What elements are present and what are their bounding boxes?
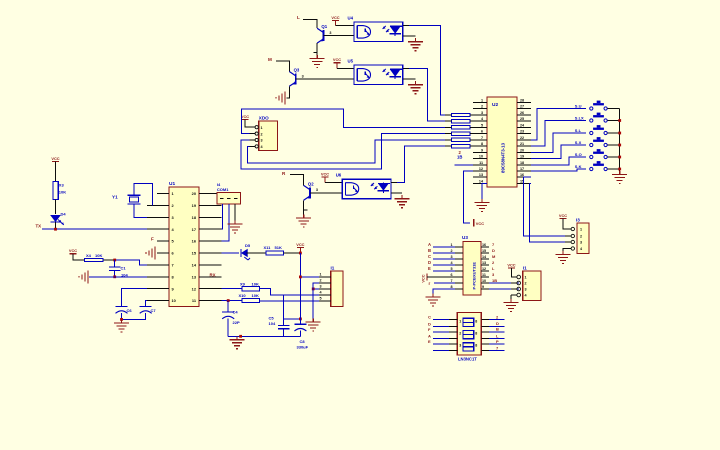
wire C1 top — [114, 260, 116, 267]
resistor X11 — [266, 251, 284, 255]
junction X11 VCC — [299, 252, 302, 255]
resistor R3 — [452, 113, 471, 116]
pin 12 U1 right — [199, 288, 222, 290]
pin 13 U2 left — [473, 176, 487, 178]
wire J3 pin1 to VCC rail — [300, 276, 319, 278]
svg-text:XDO: XDO — [259, 116, 269, 121]
svg-text:10K: 10K — [252, 281, 259, 286]
wire net TX to U1 pin4 — [42, 228, 147, 230]
svg-text:13: 13 — [479, 173, 483, 177]
svg-text:L: L — [297, 15, 300, 20]
pin 3 J1 — [511, 288, 517, 290]
svg-text:10: 10 — [172, 298, 176, 303]
wire X10 to J3 pin5 — [260, 300, 319, 302]
svg-text:11: 11 — [482, 273, 486, 277]
pin 4 J3 — [319, 294, 331, 296]
pin 11 U2 left — [473, 164, 487, 166]
svg-text:12: 12 — [479, 167, 483, 171]
svg-text:U5: U5 — [348, 59, 354, 64]
svg-text:6: 6 — [450, 273, 452, 277]
pin 15 U1 right — [199, 252, 222, 254]
resistor X10 — [242, 299, 260, 303]
svg-text:5: 5 — [320, 297, 322, 301]
svg-text:VCC: VCC — [69, 248, 77, 253]
svg-text:22: 22 — [520, 136, 524, 140]
ground U4 — [415, 38, 417, 42]
svg-text:P: P — [496, 339, 499, 344]
pin 3 U1 left — [147, 216, 169, 218]
svg-text:5: 5 — [450, 267, 452, 271]
resistor R5 — [452, 126, 471, 129]
wire VCC to U4 pin1 — [336, 24, 355, 26]
svg-text:X10: X10 — [239, 293, 247, 298]
svg-text:M: M — [268, 57, 272, 62]
svg-text:Y1: Y1 — [112, 195, 118, 200]
wire U2 pin 21 to button S.LX — [531, 121, 586, 147]
wire D5 to X11 — [246, 252, 265, 254]
wire U6 pin3 to ground — [391, 192, 402, 194]
pin 3 J3 — [319, 288, 331, 290]
pin 1 J3 — [319, 276, 331, 278]
wire XDO pin4 to U2 R7 — [247, 140, 445, 163]
wire button ground bus — [619, 109, 621, 174]
svg-text:VCC: VCC — [331, 15, 339, 20]
pin 2 J1 — [511, 282, 517, 284]
svg-text:1: 1 — [450, 243, 452, 247]
svg-text:16: 16 — [520, 173, 524, 177]
pin 9 U2 left — [473, 151, 487, 153]
svg-text:LN3NC1T: LN3NC1T — [458, 357, 477, 362]
wire Q1 emitter to ground — [316, 43, 318, 55]
svg-text:A: A — [428, 242, 431, 247]
pin 28 U2 right — [517, 102, 531, 104]
svg-text:330uF: 330uF — [297, 345, 309, 350]
wire COM1 to ground — [234, 204, 236, 221]
svg-text:I3: I3 — [576, 218, 580, 223]
pin 3 U3 left — [455, 258, 463, 260]
pin 17 U1 right — [199, 228, 222, 230]
capacitor C8 330uF — [294, 323, 306, 325]
svg-text:26: 26 — [520, 111, 524, 115]
pin 10 U3 right — [481, 282, 489, 284]
ground bottom cluster — [236, 336, 238, 340]
svg-text:15: 15 — [482, 249, 486, 253]
pin mark Q2 emitter — [304, 209, 308, 211]
wire U3 pin9 to J1 pin3 — [489, 288, 519, 290]
svg-text:C5: C5 — [269, 316, 275, 321]
svg-text:3: 3 — [302, 74, 304, 78]
wire DS1 net E — [433, 343, 449, 345]
pin 11 U1 right — [199, 300, 222, 302]
wire VCC rail down to C8 — [299, 253, 301, 324]
pin 15 U3 right — [481, 252, 489, 254]
wire Q3 base to U5 — [296, 78, 354, 80]
pin 10 U2 left — [473, 158, 487, 160]
wire VCC to XDO pin1 — [245, 120, 250, 128]
power VCC U3 pin6 — [426, 274, 428, 281]
resistor X4 — [85, 258, 104, 261]
pin 19 U2 right — [517, 158, 531, 160]
svg-text:104: 104 — [269, 321, 276, 326]
pin 16 U3 right — [481, 246, 489, 248]
wire R to Q2 collector — [290, 175, 304, 186]
svg-text:E: E — [428, 339, 431, 344]
junction X10 — [227, 299, 230, 302]
pin 6 U3 left — [455, 276, 463, 278]
wire DS1 right P — [489, 343, 505, 345]
svg-text:Q2: Q2 — [308, 181, 314, 186]
svg-text:C4: C4 — [233, 310, 239, 315]
pin 2 XDO — [250, 133, 256, 135]
svg-text:X9: X9 — [240, 281, 246, 286]
wire VCC to X3 — [55, 162, 57, 182]
wire button S.LX to bus — [608, 120, 620, 122]
ground U5 — [415, 81, 417, 85]
wire COM1 to U1 pin16 — [222, 204, 229, 241]
svg-text:1: 1 — [525, 276, 527, 280]
junction J3 pin1 — [299, 276, 302, 279]
svg-text:9: 9 — [482, 285, 484, 289]
wire button S.L to bus — [608, 132, 620, 134]
wire C5 to ground bus — [283, 329, 285, 337]
svg-text:1B: 1B — [457, 155, 462, 160]
wire U2 pin12 to VCC — [463, 171, 473, 223]
optocoupler U4 — [354, 22, 403, 41]
svg-text:2: 2 — [525, 282, 527, 286]
svg-text:D: D — [492, 248, 495, 253]
pin 7 U3 left — [455, 282, 463, 284]
junction C1 top — [113, 259, 116, 262]
pin 12 U2 left — [473, 170, 487, 172]
resistor R7 — [452, 138, 471, 141]
svg-text:28: 28 — [520, 99, 524, 103]
svg-text:8: 8 — [450, 285, 452, 289]
svg-text:U1: U1 — [169, 181, 175, 187]
wire C5 to C8 rail — [284, 318, 301, 320]
svg-text:8: 8 — [481, 142, 483, 146]
wire DS1 right 2 — [489, 319, 505, 321]
pin right 2 DS1 — [481, 325, 489, 327]
junction button S.O — [618, 156, 621, 159]
wire X9 to J3 pin4 — [260, 289, 319, 295]
svg-text:VCC: VCC — [51, 156, 59, 161]
svg-text:F: F — [151, 236, 154, 241]
wire DS1 net A — [433, 338, 449, 340]
svg-text:X4: X4 — [86, 253, 92, 258]
junction ground bus — [239, 335, 242, 338]
svg-text:12: 12 — [482, 267, 486, 271]
wire U3 pin1 to net A — [433, 246, 455, 248]
connector J2 — [577, 223, 589, 254]
svg-text:3: 3 — [481, 111, 483, 115]
wire DS1 net F — [433, 331, 449, 333]
wire D4 to net TX — [55, 222, 57, 229]
ground Q1 — [316, 55, 318, 59]
svg-text:COM1: COM1 — [217, 187, 229, 192]
wire U2 pin16 to J2 pin2 — [524, 177, 571, 236]
junction C6 ground — [120, 318, 123, 321]
pin 5 J3 — [319, 300, 331, 302]
svg-text:10: 10 — [482, 279, 486, 283]
wire button S.K to bus — [608, 168, 620, 170]
svg-text:2: 2 — [580, 235, 582, 239]
pin 18 U1 right — [199, 216, 222, 218]
pin 4 U3 left — [455, 264, 463, 266]
pin left 5 DS1 — [449, 343, 457, 345]
pin 14 U1 right — [199, 264, 222, 266]
svg-text:1: 1 — [580, 228, 582, 232]
ground U2 pin14 — [481, 199, 483, 203]
resistor R6 — [452, 132, 471, 135]
wire C5 top — [283, 295, 285, 325]
resistor R8 — [452, 144, 471, 147]
wire XDO pin2 to U2 R5 — [242, 109, 445, 134]
pin 26 U2 right — [517, 114, 531, 116]
wire ground to U1 pin8 — [89, 276, 147, 278]
wire X10 junction to C4 — [227, 301, 229, 312]
resistor R4 — [452, 119, 471, 122]
resistor X3 — [53, 182, 58, 200]
wire DS1 right L — [489, 338, 505, 340]
svg-text:3: 3 — [580, 241, 582, 245]
ground Q2 — [303, 215, 305, 219]
wire U2 pin15 to J2 pin3 — [530, 183, 571, 242]
junction J3 pin3 — [312, 288, 315, 291]
wire L to Q1 collector — [303, 19, 317, 28]
wire DS1 right B — [489, 331, 505, 333]
svg-text:51K: 51K — [275, 245, 282, 250]
pin 1 U1 left — [157, 193, 169, 195]
pin 9 U3 right — [481, 288, 489, 290]
pin 9 U1 left — [147, 288, 169, 290]
svg-text:VCC: VCC — [333, 57, 341, 62]
pin 2 U1 left — [147, 204, 169, 206]
pin 5 U3 left — [455, 270, 463, 272]
power VCC U2 pin12 — [473, 219, 475, 227]
svg-text:I1: I1 — [331, 266, 335, 271]
optocoupler U6 — [342, 179, 391, 199]
IC U2 — [487, 97, 517, 187]
svg-text:2: 2 — [459, 332, 461, 336]
wire U5 pin3 to ground — [403, 78, 416, 80]
svg-text:17: 17 — [520, 167, 524, 171]
pin left 6 DS1 — [449, 350, 457, 352]
wire COM1 to U1 pin17 — [222, 204, 223, 229]
pin 2 U3 left — [455, 252, 463, 254]
digit 3 DS1 — [463, 343, 474, 351]
IC U1 — [169, 187, 199, 307]
wire M to Q3 collector — [276, 61, 289, 71]
wire VCC to X4 — [73, 254, 85, 260]
wire U1 pin11 to X10 — [222, 300, 243, 302]
pin 17 U2 right — [517, 170, 531, 172]
pin 1 U3 left — [455, 246, 463, 248]
svg-text:VCC: VCC — [321, 171, 329, 176]
svg-text:D5: D5 — [245, 243, 251, 248]
svg-text:25: 25 — [520, 117, 524, 121]
svg-text:2: 2 — [261, 132, 263, 136]
pin 6 U2 left — [473, 133, 487, 135]
wire DS1 pin6 left — [433, 350, 449, 352]
pin 20 U2 right — [517, 151, 531, 153]
wire Y1 to U1 pin3 — [134, 204, 147, 217]
wire U2 pin 18 to button S.O — [531, 157, 586, 165]
svg-text:3: 3 — [316, 188, 318, 192]
pin 13 U1 right — [199, 276, 222, 278]
ground U1 pin6 rotated — [154, 247, 156, 260]
svg-text:TX: TX — [36, 224, 42, 229]
wire Q2 base to U6 — [310, 192, 342, 194]
wire J1 pin4 to ground — [510, 295, 512, 299]
pin 18 U2 right — [517, 164, 531, 166]
svg-text:B: B — [428, 248, 431, 253]
wire XDO pin3 to U2 R6 — [241, 134, 445, 169]
svg-text:VCC: VCC — [421, 274, 426, 282]
wire button S.X to bus — [608, 144, 620, 146]
ground COM1 — [234, 221, 236, 225]
pin left 2 DS1 — [449, 325, 457, 327]
svg-text:11: 11 — [479, 161, 483, 165]
svg-text:Q1: Q1 — [321, 24, 327, 29]
pin right 3 DS1 — [481, 331, 489, 333]
wire X4 to junction — [104, 259, 115, 261]
wire U6 pin4 to U2 R8 — [391, 182, 397, 184]
svg-text:C1: C1 — [121, 266, 127, 271]
svg-text:P-PCBXUT31E: P-PCBXUT31E — [472, 262, 477, 290]
svg-text:89C58N4T3-13: 89C58N4T3-13 — [501, 142, 506, 173]
svg-text:1: 1 — [481, 99, 483, 103]
ground Q3 rotated — [284, 91, 286, 104]
pin 25 U2 right — [517, 120, 531, 122]
svg-text:5: 5 — [481, 123, 483, 127]
ground J1 — [510, 299, 512, 303]
svg-text:2: 2 — [320, 279, 322, 283]
junction C8 rail — [299, 318, 302, 321]
pin 2 J3 — [319, 282, 331, 284]
svg-text:8: 8 — [475, 344, 477, 348]
pin 16 U2 right — [517, 176, 531, 178]
svg-text:10K: 10K — [59, 190, 66, 195]
junction C1 bottom — [113, 275, 116, 278]
ground buttons — [619, 171, 621, 175]
resistor X9 — [242, 287, 260, 291]
wire U3 pin3 to net C — [433, 258, 455, 260]
transistor Q1 — [322, 30, 324, 41]
svg-text:3: 3 — [261, 139, 263, 143]
pin 8 U3 left — [455, 288, 463, 290]
wire VCC to U6 pin1 — [325, 182, 342, 184]
svg-text:9: 9 — [481, 148, 483, 152]
svg-text:3: 3 — [320, 285, 322, 289]
svg-text:17: 17 — [192, 227, 196, 232]
svg-text:D: D — [428, 321, 431, 326]
wire U2 pin 17 to button S.K — [531, 169, 586, 171]
transistor Q3 — [295, 73, 297, 84]
wire C7 to U1 pin10 — [146, 301, 147, 306]
wire U1 pin12 to X9 — [222, 288, 243, 290]
svg-text:1: 1 — [320, 273, 322, 277]
svg-text:1: 1 — [261, 126, 263, 130]
wire C4 to ground bus — [227, 319, 229, 337]
svg-text:r: r — [429, 281, 431, 286]
svg-text:C8: C8 — [300, 339, 306, 344]
svg-text:E: E — [428, 266, 431, 271]
pin 5 U1 left — [157, 240, 169, 242]
svg-text:8: 8 — [475, 319, 477, 323]
svg-text:Q3: Q3 — [294, 67, 300, 72]
pin 1 XDO — [250, 126, 256, 128]
wire VCC to J1 pin1 — [511, 268, 513, 277]
junction button S.L — [618, 132, 621, 135]
ground J3 — [312, 319, 314, 323]
optocoupler U5 — [354, 65, 403, 85]
svg-text:C: C — [428, 254, 431, 259]
pin 12 U3 right — [481, 270, 489, 272]
ground C6 C7 — [121, 319, 123, 323]
svg-text:S.K: S.K — [575, 164, 582, 169]
wire U3 pin8 to ground — [433, 289, 455, 294]
wire U1 pin15 to D5 — [222, 252, 240, 254]
wire ground bus bottom — [228, 335, 300, 337]
svg-text:S.U: S.U — [575, 103, 582, 108]
wire DS1 net D — [433, 325, 449, 327]
pin 24 U2 right — [517, 126, 531, 128]
svg-text:RX: RX — [210, 272, 216, 277]
wire Q2 emitter to ground — [303, 200, 305, 214]
pin 11 U3 right — [481, 276, 489, 278]
wire U3 pin5 to net E — [433, 270, 455, 272]
svg-text:2: 2 — [450, 249, 452, 253]
digit 2 DS1 — [463, 331, 474, 339]
wire J2 pin4 to ground — [563, 249, 565, 252]
svg-text:X11: X11 — [264, 245, 272, 250]
svg-text:VCC: VCC — [296, 242, 304, 247]
pin 4 J2 — [565, 248, 571, 250]
connector J1 — [523, 271, 541, 301]
pin 4 J1 — [511, 294, 517, 296]
pin 22 U2 right — [517, 139, 531, 141]
wire VCC to J2 pin1 — [563, 219, 565, 230]
pin 15 U2 right — [517, 182, 531, 184]
pin left 4 DS1 — [449, 338, 457, 340]
svg-text:D: D — [496, 321, 499, 326]
pin 14 U2 left — [473, 182, 487, 184]
pin 8 U2 left — [473, 145, 487, 147]
IC U3 — [463, 242, 481, 296]
svg-text:8: 8 — [475, 332, 477, 336]
pin left 3 DS1 — [449, 331, 457, 333]
ground U1 pin8 rotated — [87, 270, 89, 283]
pin left 1 DS1 — [449, 319, 457, 321]
svg-text:S.L: S.L — [575, 128, 582, 133]
pin right 1 DS1 — [481, 319, 489, 321]
svg-text:S.X: S.X — [575, 140, 582, 145]
wire U2 pin 19 to button S.X — [531, 145, 586, 159]
capacitor C6 — [116, 306, 128, 308]
svg-text:U6: U6 — [336, 173, 342, 178]
wire DS1 net C — [433, 319, 449, 321]
pin 19 U1 right — [199, 204, 222, 206]
junction D4 TX — [54, 228, 57, 231]
wire C8 to ground bus — [299, 331, 301, 337]
junction button S.K — [618, 168, 621, 171]
wire C1 bottom — [114, 270, 116, 277]
pin 16 U1 right — [199, 240, 222, 242]
pin 4 U2 left — [473, 120, 487, 122]
junction button S.X — [618, 144, 621, 147]
wire U3 pin10 to J1 pin2 — [489, 282, 519, 284]
svg-text:10: 10 — [479, 155, 483, 159]
